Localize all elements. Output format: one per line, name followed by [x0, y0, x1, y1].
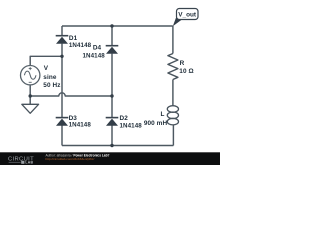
svg-text:R: R [180, 60, 185, 67]
node dot column1 [60, 55, 63, 58]
wire L bottom lead [172, 125, 174, 146]
diode D3 [56, 118, 69, 126]
svg-text:D4: D4 [93, 45, 102, 52]
wire column1 upper [61, 26, 63, 35]
resistor R1 zigzag [168, 54, 178, 80]
diode D1 [56, 36, 69, 44]
svg-text:V: V [44, 65, 49, 72]
svg-text:50 Hz: 50 Hz [43, 82, 60, 89]
wire column1 lower [61, 126, 63, 146]
svg-text:900 mH: 900 mH [144, 120, 168, 127]
wire source top [30, 56, 62, 65]
wire source bottom [29, 85, 31, 96]
ground [22, 104, 39, 113]
svg-text:LAB: LAB [25, 161, 33, 165]
wire column1 middle [61, 44, 63, 117]
wire bottom rail [62, 145, 173, 147]
wire column2 upper [111, 26, 113, 45]
svg-text:1N4148: 1N4148 [69, 122, 92, 129]
svg-text:1N4148: 1N4148 [83, 53, 106, 60]
wire R bottom lead [172, 80, 174, 107]
diode D2 [106, 118, 119, 126]
flag V_out [173, 9, 198, 27]
svg-text:D2: D2 [120, 115, 129, 122]
svg-text:10 Ω: 10 Ω [179, 68, 193, 75]
watermark bar [0, 152, 220, 165]
svg-text:http://circuitlab.com/c6nb63er: http://circuitlab.com/c6nb63er2pfbz/ [46, 157, 95, 161]
svg-text:L: L [160, 111, 164, 118]
voltage source V1 [21, 66, 40, 85]
wire column2 middle [111, 54, 113, 117]
node dot source tee [29, 94, 32, 97]
wire column2 lower [111, 126, 113, 146]
node dot column2 bottom [110, 144, 113, 147]
node dot column2 top [110, 24, 113, 27]
wire R top lead [172, 26, 174, 54]
wire top rail [62, 25, 173, 27]
inductor L1 coil [167, 106, 178, 125]
svg-text:1N4148: 1N4148 [120, 122, 143, 129]
svg-text:1N4148: 1N4148 [69, 42, 92, 49]
svg-text:V_out: V_out [178, 12, 197, 19]
node dot column2 mid [110, 94, 113, 97]
wire ground stem [29, 96, 31, 104]
svg-text:sine: sine [43, 74, 57, 81]
diode D4 [106, 46, 119, 54]
watermark logo LAB [9, 161, 34, 165]
wire mid with hop [30, 93, 112, 96]
